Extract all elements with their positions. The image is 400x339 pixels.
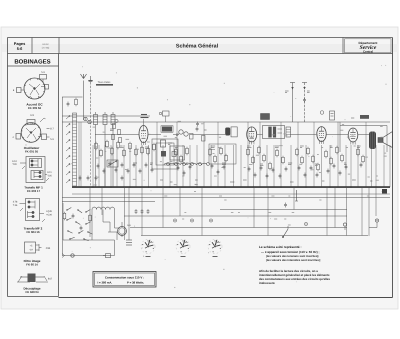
wire bus 5 xyxy=(124,215,347,217)
resistor/capacitor cluster under V1 xyxy=(95,140,156,174)
svg-text:HS.52: HS.52 xyxy=(42,43,49,46)
socket view V2 xyxy=(176,240,190,254)
mains switch contacts xyxy=(63,208,92,241)
svg-text:Pages: Pages xyxy=(14,41,25,46)
coil bank wires xyxy=(96,112,114,187)
antenna 2 (earth) xyxy=(88,76,93,120)
transformer MF3 box with windings xyxy=(263,126,285,139)
transformer MF1 dark block xyxy=(161,126,173,132)
capacitor C1 xyxy=(67,102,70,107)
vertical wires to HT bus xyxy=(93,122,390,187)
winding MF2 dark blob xyxy=(225,127,237,137)
heater wiring xyxy=(164,163,207,165)
svg-text:Schéma Général: Schéma Général xyxy=(176,44,219,50)
label symbol T1 xyxy=(159,111,169,122)
filter Filtre image xyxy=(24,242,51,266)
svg-text:Central: Central xyxy=(363,50,373,54)
svg-text:5 6: 5 6 xyxy=(41,71,45,74)
main box bottom frame xyxy=(59,297,393,299)
switch arm bottom mid xyxy=(282,190,298,238)
capacitor C40 xyxy=(303,98,306,103)
svg-text:T.20: T.20 xyxy=(12,163,17,166)
wire bus 3 (power) xyxy=(62,201,155,203)
transformer Transfo MF1 FK 603 17 xyxy=(12,157,52,194)
wire bus 6 xyxy=(130,227,347,229)
resistor R1 xyxy=(75,98,78,107)
test point terminals xyxy=(173,219,307,226)
svg-text:Département: Département xyxy=(359,41,378,45)
label box V3 xyxy=(261,114,270,120)
svg-text:5 6: 5 6 xyxy=(50,138,54,141)
fuse and input components xyxy=(62,97,83,106)
signal path wires at tube level xyxy=(95,134,369,136)
mains input line xyxy=(62,254,115,258)
svg-text:FK 949 04: FK 949 04 xyxy=(25,290,39,294)
wire top rail xyxy=(62,121,390,123)
wire bus 2 xyxy=(62,197,390,199)
trimmer/cap cluster at mixer input xyxy=(110,119,122,142)
socket view V3 xyxy=(208,240,222,254)
label Tous ondes xyxy=(96,81,113,86)
vertical wires below bus xyxy=(90,188,376,240)
antenna trimmers xyxy=(84,117,91,123)
svg-text:(7.7.56): (7.7.56) xyxy=(42,47,50,50)
winding MF3 secondary xyxy=(286,127,291,137)
transformer Transfo MF2 FK 604 16 xyxy=(13,199,53,235)
label V1 ECH81 xyxy=(141,115,149,126)
caps row above HT bus left xyxy=(79,176,124,181)
rectifier xyxy=(118,222,132,237)
wire bus 2a xyxy=(72,193,390,195)
speaker xyxy=(378,132,393,148)
extra verticals left xyxy=(79,122,81,187)
svg-text:FK 66 14: FK 66 14 xyxy=(26,262,38,266)
output transformer dark winding xyxy=(369,132,376,150)
svg-text:intéressent.: intéressent. xyxy=(259,281,275,285)
resistor/capacitor cluster mid xyxy=(175,146,228,175)
caps row above bus 5 xyxy=(135,209,150,214)
HT bus (thick) xyxy=(72,186,390,188)
wire bus 7 xyxy=(141,235,368,237)
svg-text:FK 603 17: FK 603 17 xyxy=(27,189,41,193)
header cell: reference number xyxy=(42,38,59,54)
svg-text:— L’appareil sous tension (110: — L’appareil sous tension (110 v. 50 Hz)… xyxy=(261,250,319,254)
svg-text:C34: C34 xyxy=(46,247,51,250)
svg-text:Tous ondes: Tous ondes xyxy=(98,81,112,84)
svg-text:T.25: T.25 xyxy=(47,174,52,177)
None xyxy=(94,115,98,125)
tube V1 ECH81 xyxy=(139,126,148,146)
header cell: Pages 5-6 xyxy=(14,38,32,54)
tube V5 EL84 output xyxy=(317,127,326,144)
value labels row under bus area xyxy=(160,180,372,182)
svg-text:5-6: 5-6 xyxy=(17,46,23,51)
coil Oscillateur FK 601 05 xyxy=(12,114,54,154)
chain of socket circles on heater row xyxy=(167,163,210,166)
bobinages column frame xyxy=(8,54,59,297)
svg-text:Le schéma a été représenté :: Le schéma a été représenté : xyxy=(259,245,301,249)
svg-text:P = 38 Watts.: P = 38 Watts. xyxy=(127,281,144,285)
svg-text:(les valeurs des tensions sont: (les valeurs des tensions sont inscrites… xyxy=(266,255,319,258)
choke Découplage FK 949 04 xyxy=(17,274,53,295)
consommation box xyxy=(93,272,156,288)
svg-text:LQ45: LQ45 xyxy=(46,210,52,213)
power wiring steps xyxy=(92,210,120,241)
antenna coil bank xyxy=(94,115,116,125)
junction dots on bus xyxy=(92,186,377,188)
svg-text:+C26: +C26 xyxy=(46,213,52,216)
power section enclosure xyxy=(63,203,115,256)
label V5 electrolytic xyxy=(320,111,334,120)
svg-text:FK 604 16: FK 604 16 xyxy=(26,230,40,234)
value label noise xyxy=(93,121,387,225)
svg-text:FK 305 56: FK 305 56 xyxy=(28,106,42,110)
None xyxy=(111,115,115,125)
oscillator section outline boxes xyxy=(152,139,236,169)
None xyxy=(103,115,107,125)
coil Accord OC FK 305 56 xyxy=(13,71,49,110)
svg-text:9.10: 9.10 xyxy=(12,160,17,163)
svg-text:3.78: 3.78 xyxy=(13,201,18,204)
antenna 1 xyxy=(81,74,87,120)
bobinages title xyxy=(14,58,50,65)
svg-text:B17: B17 xyxy=(48,278,53,281)
svg-text:8 7: 8 7 xyxy=(50,128,54,131)
svg-text:(les valeurs des intensités so: (les valeurs des intensités sont inscrit… xyxy=(266,258,321,262)
svg-text:6 9: 6 9 xyxy=(30,114,34,117)
output stage box xyxy=(340,122,387,152)
switch linkage dashed vertical xyxy=(90,122,92,186)
switch contacts column xyxy=(66,115,70,183)
resistor/capacitor cluster right xyxy=(247,146,365,179)
filter caps stack xyxy=(126,240,132,245)
svg-text:9.11: 9.11 xyxy=(47,171,52,174)
socket labels xyxy=(146,256,218,258)
schematic notes text xyxy=(259,245,330,285)
svg-text:BOBINAGES: BOBINAGES xyxy=(14,58,50,65)
test terminal right xyxy=(369,219,379,228)
svg-text:7.36: 7.36 xyxy=(13,204,18,207)
wire left rail xyxy=(62,97,64,256)
tube V6 EL84 xyxy=(348,128,358,145)
wave band switch strip xyxy=(73,113,77,186)
header frame xyxy=(8,38,393,298)
socket view V1 xyxy=(141,240,155,254)
header cell: Département Service Central xyxy=(343,38,391,54)
electrolytic cluster under MF1 xyxy=(161,140,177,157)
volume potentiometer xyxy=(107,160,118,167)
detector diode cluster xyxy=(170,122,207,160)
wire bus 4 xyxy=(220,209,347,211)
svg-text:FK 601 05: FK 601 05 xyxy=(25,150,39,154)
None xyxy=(92,207,115,209)
scan noise (decorative) xyxy=(25,65,386,288)
PU pickup input wires xyxy=(285,83,310,123)
svg-text:I = 380 mA.: I = 380 mA. xyxy=(98,281,113,285)
svg-text:Consommation sous 110 V :: Consommation sous 110 V : xyxy=(105,276,144,280)
terminal xyxy=(343,223,346,230)
label box V6 xyxy=(351,115,369,119)
junction block xyxy=(382,189,387,194)
title: Schéma Général xyxy=(176,44,219,50)
tube V3 EBF80 xyxy=(247,127,257,145)
wire AVC rail xyxy=(62,115,150,117)
